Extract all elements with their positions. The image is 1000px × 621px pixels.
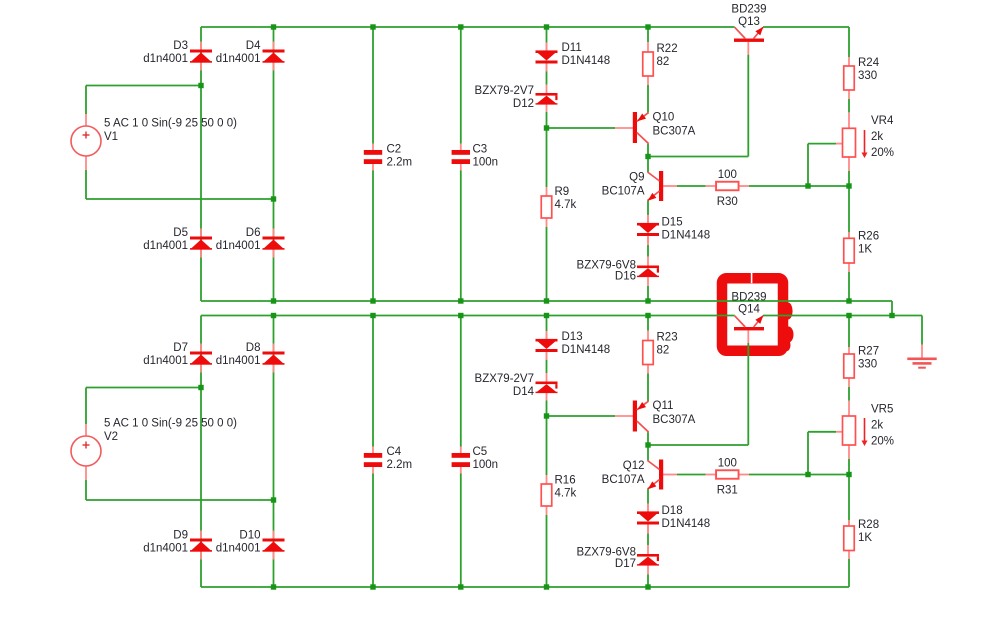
svg-text:Q10: Q10 (653, 112, 675, 124)
svg-text:4.7k: 4.7k (555, 199, 577, 211)
svg-text:2.2m: 2.2m (387, 157, 413, 169)
svg-text:D3: D3 (173, 40, 188, 52)
svg-text:BC307A: BC307A (653, 126, 696, 138)
svg-text:D16: D16 (615, 271, 636, 283)
svg-text:D7: D7 (173, 342, 188, 354)
svg-text:C4: C4 (387, 446, 402, 458)
svg-text:BZX79-6V8: BZX79-6V8 (577, 547, 636, 559)
svg-text:2k: 2k (871, 131, 883, 143)
svg-text:D11: D11 (562, 42, 582, 54)
svg-text:100: 100 (718, 458, 737, 470)
svg-text:D13: D13 (562, 331, 583, 343)
svg-text:BD239: BD239 (731, 4, 766, 16)
svg-text:D9: D9 (173, 530, 188, 542)
svg-text:2k: 2k (871, 420, 883, 432)
svg-text:5 AC 1 0 Sin(-9 25 50 0 0): 5 AC 1 0 Sin(-9 25 50 0 0) (104, 418, 237, 430)
svg-text:BC107A: BC107A (602, 186, 645, 198)
svg-text:d1n4001: d1n4001 (216, 543, 261, 555)
svg-text:d1n4001: d1n4001 (216, 53, 261, 65)
svg-text:R26: R26 (858, 231, 879, 243)
svg-text:d1n4001: d1n4001 (216, 240, 261, 252)
svg-text:82: 82 (657, 56, 670, 68)
svg-text:R23: R23 (657, 332, 678, 344)
svg-text:R22: R22 (657, 43, 678, 55)
svg-text:D4: D4 (246, 40, 261, 52)
svg-text:C3: C3 (473, 144, 488, 156)
svg-text:D15: D15 (662, 217, 683, 229)
svg-text:D10: D10 (239, 530, 260, 542)
svg-text:R9: R9 (555, 186, 570, 198)
svg-text:330: 330 (858, 359, 877, 371)
svg-text:d1n4001: d1n4001 (143, 355, 188, 367)
svg-text:100: 100 (718, 169, 737, 181)
svg-text:R28: R28 (858, 519, 879, 531)
svg-text:2.2m: 2.2m (387, 459, 413, 471)
svg-text:BZX79-2V7: BZX79-2V7 (475, 85, 534, 97)
svg-text:330: 330 (858, 70, 877, 82)
svg-text:VR4: VR4 (871, 115, 894, 127)
svg-text:BC107A: BC107A (602, 474, 645, 486)
svg-text:D5: D5 (173, 227, 188, 239)
svg-text:82: 82 (657, 345, 670, 357)
svg-text:R16: R16 (555, 475, 576, 487)
svg-text:d1n4001: d1n4001 (143, 240, 188, 252)
svg-text:D1N4148: D1N4148 (662, 518, 711, 530)
svg-text:V2: V2 (104, 431, 118, 443)
svg-text:R24: R24 (858, 57, 880, 69)
svg-text:R30: R30 (717, 196, 738, 208)
svg-text:Q14: Q14 (738, 304, 760, 316)
svg-text:D12: D12 (513, 98, 534, 110)
svg-text:100n: 100n (473, 157, 499, 169)
svg-text:D1N4148: D1N4148 (562, 344, 611, 356)
svg-text:20%: 20% (871, 147, 894, 159)
svg-text:D18: D18 (662, 505, 683, 517)
svg-text:C2: C2 (387, 144, 402, 156)
svg-text:Q9: Q9 (629, 172, 644, 184)
svg-text:C5: C5 (473, 446, 488, 458)
svg-text:1K: 1K (858, 532, 872, 544)
svg-text:D1N4148: D1N4148 (562, 55, 611, 67)
svg-text:d1n4001: d1n4001 (143, 53, 188, 65)
svg-text:BZX79-2V7: BZX79-2V7 (475, 373, 534, 385)
svg-text:100n: 100n (473, 459, 499, 471)
svg-text:5 AC 1 0 Sin(-9 25 50 0 0): 5 AC 1 0 Sin(-9 25 50 0 0) (104, 118, 237, 130)
svg-text:D17: D17 (615, 558, 636, 570)
svg-text:4.7k: 4.7k (555, 488, 577, 500)
svg-text:BC307A: BC307A (653, 414, 696, 426)
svg-text:D6: D6 (246, 227, 261, 239)
svg-text:BD239: BD239 (731, 292, 766, 304)
svg-text:20%: 20% (871, 436, 894, 448)
svg-text:D1N4148: D1N4148 (662, 230, 711, 242)
svg-text:D14: D14 (513, 386, 535, 398)
svg-text:VR5: VR5 (871, 404, 893, 416)
svg-text:R27: R27 (858, 346, 879, 358)
svg-text:Q13: Q13 (738, 16, 760, 28)
svg-text:1K: 1K (858, 244, 872, 256)
svg-text:d1n4001: d1n4001 (216, 355, 261, 367)
svg-text:D8: D8 (246, 342, 261, 354)
svg-text:Q12: Q12 (623, 460, 645, 472)
svg-text:V1: V1 (104, 131, 118, 143)
svg-text:d1n4001: d1n4001 (143, 543, 188, 555)
svg-text:Q11: Q11 (653, 400, 674, 412)
svg-text:R31: R31 (717, 485, 738, 497)
